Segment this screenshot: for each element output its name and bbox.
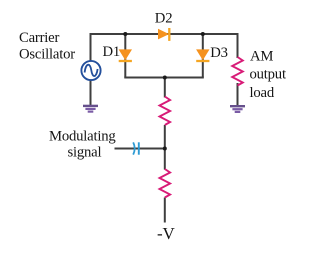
svg-text:output: output [250, 66, 286, 82]
diode D1 [119, 50, 132, 61]
svg-text:Oscillator: Oscillator [19, 46, 75, 62]
svg-text:Modulating: Modulating [49, 129, 116, 145]
wire: right branch top (to AM load resistor) [237, 33, 239, 58]
capacitor: modulating signal coupling [133, 142, 139, 154]
node: junction bridge / middle resistor [163, 76, 167, 80]
ground: below carrier oscillator [83, 106, 98, 112]
wire: modulating node to bottom resistor (already covered) and to -V [164, 198, 166, 223]
svg-text:-V: -V [157, 224, 175, 243]
svg-text:signal: signal [68, 145, 102, 161]
resistor: middle (between bridge and modulating node) [160, 97, 171, 126]
resistor: AM output load [232, 57, 243, 86]
wire: D1 branch vertical [124, 34, 126, 78]
svg-text:D1: D1 [103, 44, 121, 60]
wire: carrier oscillator to ground [90, 80, 92, 106]
wire: carrier oscillator to top bus [90, 33, 92, 61]
wire: modulating signal horizontal [115, 148, 165, 150]
resistor: bottom (to -V) [160, 169, 171, 198]
svg-text:D3: D3 [210, 45, 228, 61]
svg-text:D2: D2 [155, 10, 173, 26]
svg-text:load: load [250, 85, 275, 101]
wire: AM load resistor to ground [237, 83, 239, 106]
wire: top horizontal bus [90, 33, 239, 35]
diode D2 [158, 28, 169, 41]
node: junction top bus / D1 [123, 32, 127, 36]
wire: bridge center to middle resistor [164, 78, 166, 98]
node: junction top bus / D3 [201, 32, 205, 36]
AC source: carrier oscillator symbol [81, 61, 100, 80]
svg-text:AM: AM [250, 48, 273, 64]
diode D3 [196, 50, 209, 61]
wire: middle resistor to modulating node [164, 125, 166, 170]
ground: below AM output load [230, 106, 245, 112]
node: junction modulating signal / resistor chain [163, 147, 167, 151]
wire: bottom bridge horizontal [124, 77, 204, 79]
wire: D3 branch vertical [202, 34, 204, 78]
svg-text:Carrier: Carrier [19, 30, 59, 46]
